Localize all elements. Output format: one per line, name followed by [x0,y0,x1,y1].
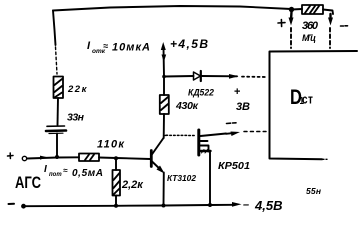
svg-text:I: I [44,164,47,175]
terminal input circle [22,156,26,160]
label Д1СТ [290,86,313,110]
svg-text:КТ3102: КТ3102 [167,174,197,183]
wire 430к to +4,5В junction [163,77,165,96]
svg-text:2,2к: 2,2к [121,179,144,191]
capacitor 33н [46,126,66,134]
block Д1СТ [270,51,358,159]
resistor 2,2к [113,170,121,196]
wire 22к to cap [57,98,60,125]
resistor 110к [79,154,99,162]
node emitter junction [162,204,166,208]
wire dashed to block lower input [244,131,266,133]
wire cap to input node [56,134,58,157]
node 2,2к top junction [114,156,118,160]
svg-text:КР501: КР501 [218,160,250,172]
wire junction to top terminal [163,48,166,77]
wire gate node right with arrow [201,132,241,137]
node top-right junction [289,7,294,12]
svg-text:ст: ст [302,93,313,106]
svg-text:+4,5В: +4,5В [170,37,208,51]
resistor 22к [54,77,64,99]
wire minus lead arrow down [328,14,333,26]
transistor КТ3102 [151,138,164,174]
label −4,5В [243,198,282,213]
wire dashed down-right to block [329,28,331,48]
wire source down to rail [209,152,211,206]
wire diode to block with arrow [201,74,239,79]
terminal minus bottom-left [9,203,15,205]
wire junction to diode [164,75,194,78]
node diode junction [162,75,166,79]
label + input [8,153,14,159]
wire 2,2к bottom lead [115,196,117,206]
wire left rail dotted part [56,47,58,74]
terminal bottom rail arrow [232,202,242,207]
wire resistor right to corner [323,10,333,15]
svg-text:I: I [87,40,91,52]
node input junction [55,155,59,159]
node minus terminal dot [21,204,26,209]
wire emitter down to rail [163,173,165,206]
wire 2,2к top lead [115,158,117,170]
wire collector up to 430к [163,114,165,138]
svg-text:≈: ≈ [63,166,68,175]
svg-text:3В: 3В [236,101,250,113]
label + 3В [234,86,250,113]
svg-text:430к: 430к [175,100,199,112]
svg-text:33н: 33н [67,112,85,124]
label Iотк = 10мкА [87,40,150,55]
wire junction to resistor [292,8,303,11]
label minus (right of arrow) [341,25,348,27]
resistor 430к [160,95,169,114]
node 2,2к bottom junction [114,204,118,208]
svg-text:4,5В: 4,5В [254,198,282,213]
label Iпот = 0,5мА [44,164,103,179]
svg-text:22к: 22к [67,84,88,95]
diode КД522 [194,71,201,81]
svg-text:110к: 110к [97,139,125,151]
wire 110к to base [99,158,150,160]
terminal +4,5В arrow up [161,42,166,50]
wire bottom rail [26,205,234,206]
svg-text:КД522: КД522 [188,88,214,98]
wire left rail down [53,11,56,46]
label + (left of plus arrow) [278,20,285,27]
svg-text:55н: 55н [306,186,321,196]
svg-text:пот: пот [49,172,62,178]
wire dotted into block [242,76,267,78]
svg-text:МГц: МГц [302,33,316,43]
wire plus lead arrow down [289,12,294,26]
svg-text:360: 360 [302,20,319,32]
svg-text:АГС: АГС [15,173,41,192]
wire input with current arrow [27,156,57,160]
transistor КР501 [199,130,211,155]
wire input node to 110к [57,156,79,158]
node collector tick [164,135,167,137]
wire top rail [53,6,291,11]
node source junction [208,203,212,207]
wire collector node dotted to gate [166,134,196,136]
svg-text:+: + [234,86,240,98]
wire current arrow down [162,55,167,63]
svg-text:–: – [243,199,249,211]
svg-text:≈: ≈ [103,41,108,51]
svg-text:10мкА: 10мкА [112,42,150,54]
resistor 360 [302,5,323,14]
svg-text:0,5мА: 0,5мА [72,168,103,179]
wire dashed down-left to block [290,28,292,48]
label minus above arrow [227,122,237,125]
